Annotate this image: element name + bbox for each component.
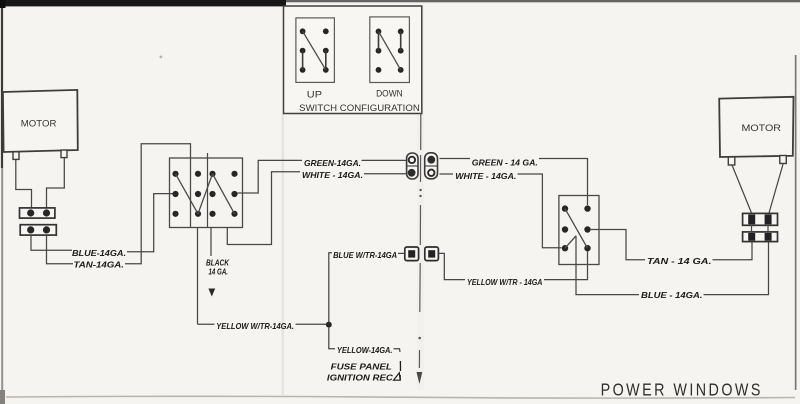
switch S1 diagonal wiper 2 bbox=[198, 174, 213, 214]
motor M1 terminal left bbox=[13, 152, 19, 160]
svg-text:BLUE-14GA.: BLUE-14GA. bbox=[72, 249, 126, 258]
svg-text:DOWN: DOWN bbox=[376, 89, 403, 99]
wire tan to right connector bbox=[713, 242, 753, 260]
scan top border bar bbox=[0, 0, 286, 6]
motor M2 terminal right bbox=[780, 156, 787, 164]
center divider arrowhead bbox=[417, 372, 423, 384]
ignition bracket triangle bbox=[394, 373, 401, 380]
wire white to switch S2 bbox=[518, 174, 562, 248]
ignition bracket dashes bbox=[399, 361, 401, 380]
wire motor M1 right terminal to connector bbox=[47, 158, 65, 208]
motor M2 terminal left bbox=[728, 157, 735, 165]
fold shadow left bbox=[282, 113, 285, 395]
UP switch box bbox=[296, 18, 335, 83]
UP switch right vertical contact wire bbox=[325, 51, 327, 70]
connector right pins bbox=[748, 215, 755, 225]
wire vertical through switch S1 second bbox=[207, 153, 209, 228]
svg-text:GREEN-14GA.: GREEN-14GA. bbox=[304, 159, 361, 168]
svg-text:14 GA.: 14 GA. bbox=[209, 268, 229, 277]
UP switch contacts bbox=[300, 28, 329, 72]
switch S1 diagonal wiper 1 bbox=[176, 174, 199, 214]
wire white right of connector bbox=[440, 173, 454, 175]
DOWN switch contacts bbox=[376, 29, 404, 73]
switch configuration outer box bbox=[284, 6, 422, 114]
motor M2 (right) bbox=[719, 97, 793, 157]
svg-text:TAN-14GA.: TAN-14GA. bbox=[74, 261, 125, 270]
UP switch diagonal contact wire bbox=[303, 31, 326, 70]
svg-text:POWER WINDOWS: POWER WINDOWS bbox=[601, 380, 763, 400]
DOWN switch diagonal contact wire bbox=[379, 31, 401, 70]
svg-text:WHITE - 14GA.: WHITE - 14GA. bbox=[302, 171, 363, 180]
connector block right upper bar bbox=[743, 213, 778, 225]
wire blue from left connector bbox=[31, 235, 72, 250]
wire green to switch S2 bbox=[539, 159, 588, 206]
DOWN switch right vertical contact wire bbox=[400, 31, 402, 50]
switch S1 diagonal wiper 3 bbox=[213, 174, 235, 214]
switch S2 (right door) box bbox=[559, 196, 599, 265]
wire blue to right connector bbox=[704, 242, 769, 295]
center connector upper left pins bbox=[409, 157, 415, 163]
center connector lower left pillar bbox=[405, 247, 419, 261]
svg-text:YELLOW W/TR-14GA.: YELLOW W/TR-14GA. bbox=[216, 322, 294, 331]
center connector upper left pillar bbox=[407, 153, 418, 179]
wire yellow wtr horizontal left bbox=[198, 323, 215, 325]
center connector lower right pillar bbox=[425, 247, 439, 261]
svg-text:YELLOW-14GA.: YELLOW-14GA. bbox=[337, 346, 393, 355]
UP switch left vertical contact wire bbox=[302, 51, 304, 70]
svg-text:GREEN - 14 GA.: GREEN - 14 GA. bbox=[472, 159, 538, 168]
svg-text:MOTOR: MOTOR bbox=[21, 119, 57, 129]
center connector upper right pins bbox=[428, 156, 435, 163]
wire motor M1 left terminal to connector bbox=[16, 160, 32, 208]
wire yellow wtr to junction bbox=[296, 323, 327, 325]
connector block left lower bar bbox=[20, 225, 56, 235]
wire tan up and over into switch top bbox=[125, 144, 191, 264]
scan bottom-left corner mark bbox=[0, 390, 5, 404]
wire yellow stub arrow bbox=[394, 349, 401, 352]
DOWN switch left vertical contact wire bbox=[378, 31, 380, 50]
scan left border bar bbox=[0, 0, 6, 8]
wire blue wtr to connector bbox=[398, 252, 405, 254]
wire green to center connector bbox=[362, 159, 407, 161]
switch S1 contacts bbox=[172, 171, 237, 217]
svg-text:YELLOW W/TR - 14GA: YELLOW W/TR - 14GA bbox=[467, 278, 542, 287]
wire junction up to blue wtr bbox=[329, 253, 332, 322]
switch S1 (left door) box bbox=[170, 158, 243, 228]
connector block right lower bar bbox=[743, 232, 778, 242]
svg-text:TAN - 14 GA.: TAN - 14 GA. bbox=[647, 257, 712, 266]
wire green right of connector bbox=[440, 158, 471, 160]
wire motor M2 left terminal to connector bbox=[732, 165, 752, 213]
wire yellow wtr right from connector bbox=[438, 253, 465, 279]
fold shadow center bbox=[417, 6, 424, 390]
svg-text:WHITE - 14GA.: WHITE - 14GA. bbox=[455, 172, 516, 181]
wire black ground below switch S1 bbox=[210, 228, 212, 257]
center divider dash-dot line bbox=[419, 114, 420, 369]
junction node bbox=[326, 322, 332, 328]
svg-text:IGNITION REC: IGNITION REC bbox=[327, 373, 394, 382]
svg-text:SWITCH CONFIGURATION: SWITCH CONFIGURATION bbox=[299, 103, 420, 113]
center connector upper right pillar bbox=[425, 153, 438, 179]
wire green from switch S1 right bbox=[238, 160, 303, 193]
wire between right connector bars bbox=[752, 225, 769, 232]
wire yellow drop below switch S1 bbox=[197, 228, 199, 325]
wire junction down to yellow bbox=[329, 327, 335, 349]
svg-text:BLUE - 14GA.: BLUE - 14GA. bbox=[641, 291, 703, 300]
scan right edge line bbox=[795, 55, 797, 390]
svg-text:BLACK: BLACK bbox=[206, 259, 230, 268]
scan bottom shadow line bbox=[6, 396, 795, 398]
motor M1 (left) bbox=[3, 90, 78, 152]
switch S2 diagonal wiper 2 bbox=[565, 236, 576, 248]
wire blue to switch row2 bbox=[127, 194, 173, 252]
svg-text:MOTOR: MOTOR bbox=[742, 123, 782, 133]
svg-text:BLUE W/TR-14GA: BLUE W/TR-14GA bbox=[333, 251, 397, 260]
DOWN switch box bbox=[370, 17, 410, 83]
connector left pins bbox=[27, 209, 50, 233]
switch S2 diagonal wiper 1 bbox=[565, 209, 588, 249]
motor M1 terminal right bbox=[61, 150, 67, 158]
wire tan from left connector bbox=[47, 235, 74, 264]
svg-text:FUSE PANEL: FUSE PANEL bbox=[331, 362, 392, 371]
svg-text:UP: UP bbox=[307, 90, 322, 100]
wire blue from switch S2 wiper bbox=[576, 236, 639, 295]
wire white loop from switch S1 bottom bbox=[227, 172, 300, 245]
wire motor M2 right terminal to connector bbox=[769, 164, 783, 214]
connector block left upper bar bbox=[20, 208, 55, 218]
wire tan from switch S2 bbox=[591, 230, 645, 260]
ground arrow bbox=[208, 289, 215, 297]
switch S2 contacts bbox=[562, 205, 591, 251]
wire yellow wtr to switch S2 bbox=[544, 252, 588, 280]
wire white to center connector bbox=[364, 173, 406, 175]
